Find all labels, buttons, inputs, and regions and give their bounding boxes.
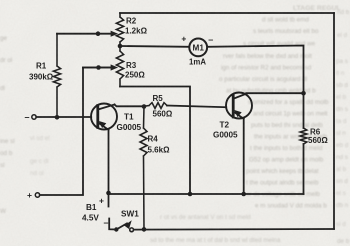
terminal: negative input [32,115,36,119]
wire: T1 emitter down to positive rail [108,130,110,194]
node: R2 wiper wire dot [96,31,101,36]
wiper arrow of R2 [57,31,117,36]
node: T2 emitter on positive rail [241,192,246,197]
resistor R5 [144,103,167,109]
node: R1 bottom joins negative input wire [55,115,60,120]
node: battery plus / T1 emitter junction [106,191,111,196]
transistor T1 [91,104,117,130]
wire: R5 to T2 base [167,106,226,108]
wire: meter to right corner, down to T2 collector node [207,46,304,129]
wire: top rail [120,12,334,14]
resistor R6 [300,128,307,144]
battery B1 bottom stub [109,219,116,230]
wire: negative input to T1 base [36,116,91,118]
resistor R4 [140,107,147,230]
node: T1 collector / R4 / R5 junction [142,104,147,109]
wire: meter rail from R2/R3 junction to meter [120,45,189,48]
wire: positive rail [109,193,304,195]
node: R2/R3 junction on meter rail [118,44,123,49]
meter M1 [189,39,207,57]
battery B1 top stub [108,194,110,207]
resistor R2 [116,13,123,46]
resistor R3 [116,46,123,87]
wire: R3 bottom to T2-side vertical drop [120,87,190,195]
switch SW1 [114,221,133,231]
wire: T2 collector to R6 top node [246,92,303,94]
resistor R1 [53,34,60,118]
wire: right side of outer loop [333,13,335,229]
node: T2 collector / meter / R6 junction [301,91,306,96]
wire: R6 bottom to positive rail corner [303,144,305,194]
node: R4 joins bottom rail [142,227,147,232]
node: drop joins positive rail [188,192,193,197]
node: R3 wiper wire dot [96,65,101,70]
wire: T2 emitter down to positive rail [243,119,245,194]
transistor T2 [226,93,252,119]
wiper arrow of R3 [83,65,117,70]
terminal: positive input [35,193,39,197]
wire: T1 collector to R5 node [115,105,145,107]
wire: positive input riser up to wiper wires [40,68,112,196]
wire: bottom rail [133,228,334,231]
